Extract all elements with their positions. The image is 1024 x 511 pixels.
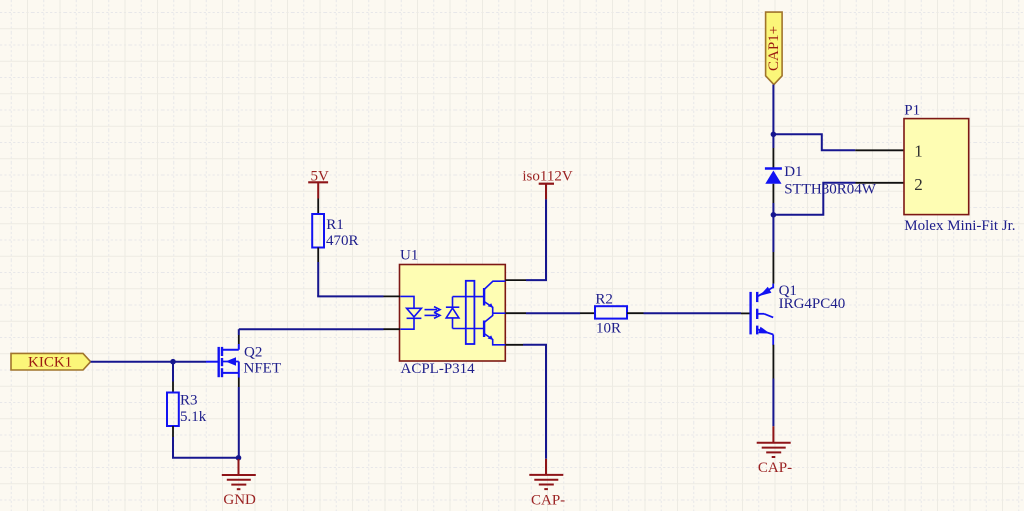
wire R3 bottom to GND junction — [172, 426, 239, 458]
power 5V — [308, 169, 329, 199]
port CAP1+ — [766, 12, 783, 85]
transistor Q2 — [219, 344, 281, 378]
svg-text:2: 2 — [914, 175, 923, 194]
P1 pin 2 — [856, 182, 905, 184]
wire bottom junction to Q1 collector — [772, 222, 774, 284]
node junction KICK1/R3/Q2 — [170, 359, 176, 365]
wire CAP1+ to top junction — [772, 85, 774, 148]
svg-text:R3: R3 — [180, 392, 198, 408]
U1 pin 5 (Vee) — [505, 344, 523, 346]
diode D1 — [765, 148, 877, 203]
wire iso112V to U1 pin 8 — [526, 199, 546, 280]
U1 internal light arrows — [425, 307, 441, 319]
svg-text:iso112V: iso112V — [522, 168, 572, 184]
svg-text:CAP1+: CAP1+ — [766, 26, 782, 71]
wire R2 to Q1 gate — [644, 312, 742, 314]
U1 pin 2 (anode) — [384, 295, 401, 297]
connector P1 — [904, 103, 1016, 234]
transistor Q1 — [751, 283, 846, 345]
wire 5V to R1 — [317, 199, 319, 215]
U1 internal photodiode — [446, 297, 459, 329]
U1 internal LED — [400, 296, 421, 329]
svg-text:Q2: Q2 — [244, 344, 262, 360]
wire U1 pin 6 to R2 — [526, 312, 580, 314]
svg-text:10R: 10R — [596, 321, 621, 337]
svg-text:GND: GND — [223, 492, 256, 508]
op-amp U1 body — [400, 248, 506, 377]
Q1 gate pin — [741, 312, 751, 314]
wire KICK1 to junction to Q2 gate — [91, 361, 218, 363]
wire bottom junction to P1 pin 2 — [773, 183, 855, 215]
svg-text:ACPL-P314: ACPL-P314 — [401, 361, 476, 377]
U1 pin 8 (Vcc) — [505, 279, 526, 281]
svg-text:5.1k: 5.1k — [180, 409, 207, 425]
ground GND — [222, 459, 256, 508]
wire Q1 emitter to CAP- ground — [772, 345, 774, 427]
ground CAP- under U1 — [529, 459, 565, 509]
ground CAP- under Q1 — [757, 426, 792, 476]
svg-text:470R: 470R — [326, 233, 359, 249]
U1 internal output rail — [493, 312, 506, 314]
svg-text:Molex Mini-Fit Jr.: Molex Mini-Fit Jr. — [904, 218, 1015, 234]
U1 pin 3 (cathode) — [384, 328, 401, 330]
resistor R3 — [167, 392, 207, 426]
wire Q2 source to GND junction — [238, 378, 240, 459]
P1 pin 1 — [855, 149, 904, 151]
svg-text:CAP-: CAP- — [758, 460, 792, 476]
svg-text:R2: R2 — [595, 291, 613, 307]
wire top junction to P1 pin 1 — [773, 134, 855, 150]
U1 internal transistor top — [484, 281, 505, 313]
U1 internal transistor bottom — [484, 313, 505, 345]
node junction D1 cathode/P1 pin2/Q1 collector — [771, 212, 777, 218]
wire D1 to bottom junction — [772, 203, 774, 222]
svg-text:R1: R1 — [326, 217, 344, 233]
U1 internal base rails — [453, 297, 485, 329]
wire R1 to U1 pin 2 — [317, 248, 383, 297]
port KICK1 — [11, 353, 91, 370]
U1 pin 6 (Vo) — [505, 312, 526, 314]
node junction D1 anode/P1 pin1 — [771, 132, 777, 138]
node junction R3/Q2 source — [236, 455, 242, 461]
svg-text:CAP-: CAP- — [531, 493, 565, 509]
R2 left pin — [580, 312, 595, 314]
R2 right pin — [627, 312, 644, 314]
resistor R2 — [595, 291, 627, 336]
svg-text:KICK1: KICK1 — [28, 355, 72, 371]
wire junction to R3 top — [172, 362, 174, 393]
wire U1 pin 5 to CAP- ground — [523, 345, 546, 459]
svg-text:1: 1 — [914, 142, 923, 161]
U1 internal shield rect — [466, 281, 475, 344]
svg-text:NFET: NFET — [244, 361, 282, 377]
resistor R1 — [312, 214, 358, 249]
wire Q2 drain to U1 pin 3 — [239, 329, 384, 344]
svg-text:U1: U1 — [400, 248, 418, 264]
svg-text:IRG4PC40: IRG4PC40 — [779, 296, 846, 312]
power iso112V — [522, 168, 572, 199]
svg-text:D1: D1 — [784, 164, 802, 180]
svg-text:P1: P1 — [904, 103, 920, 119]
